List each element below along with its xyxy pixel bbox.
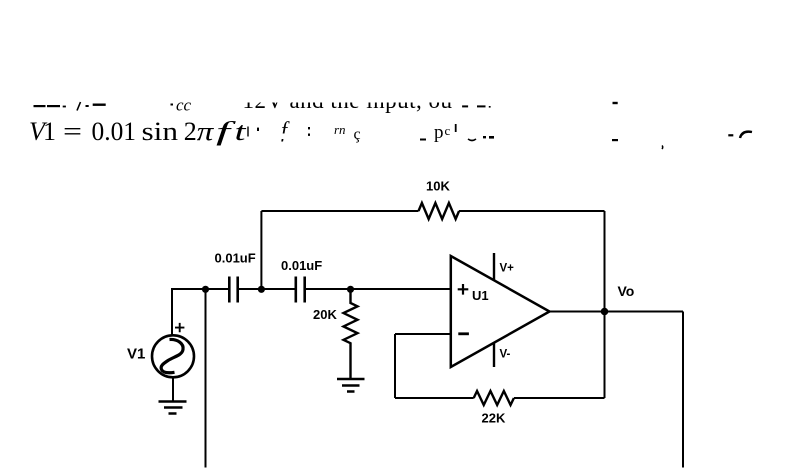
node: equation text V1 = 0.01 sin 2pi f t (29, 117, 247, 146)
node: Vcc subscript fragment (171, 96, 192, 115)
svg-text:22K: 22K (482, 411, 506, 426)
capacitor C2 0.01uF plates (296, 277, 305, 303)
wire: output to right corner (605, 311, 684, 313)
op-amp U1 triangle (451, 256, 550, 367)
wire: bottom line right of 22K (514, 397, 605, 399)
junction node dot: main rail left (202, 286, 209, 293)
svg-text:V+: V+ (500, 263, 515, 275)
svg-text:10K: 10K (426, 179, 450, 194)
svg-text:ç: ç (354, 126, 361, 143)
junction node dot: 20K top (347, 286, 354, 293)
resistor R 10K zigzag (419, 203, 460, 219)
op-amp V- pin line (493, 343, 495, 368)
wire: top feedback line left of 10K (261, 210, 418, 212)
wire: right feedback rail (604, 211, 606, 398)
node: faint fragments on line 2 (247, 117, 752, 149)
svg-text:p: p (434, 122, 444, 143)
plus sign at V1 top (175, 323, 184, 332)
source V1 circle (152, 335, 194, 377)
wire: cap2 to op-amp + input (306, 288, 451, 290)
svg-text:12V and the input, ou: 12V and the input, ou (243, 88, 453, 113)
wire: top feedback line right of 10K (459, 210, 605, 212)
svg-text:U1: U1 (472, 288, 489, 303)
svg-text:0.01uF: 0.01uF (215, 251, 256, 266)
wire: V1 to ground (172, 377, 174, 401)
wire: main input rail left segment (172, 288, 228, 290)
svg-text:Vo: Vo (618, 283, 635, 299)
node: clipped words "and the input, ou" (243, 88, 453, 113)
ground symbol under 20K (337, 379, 365, 392)
svg-text:V1: V1 (127, 346, 145, 363)
wire: between cap1 and cap2 (239, 288, 295, 290)
junction node dot: between capacitors (258, 286, 265, 293)
node: clipped text line 1 fragments (34, 102, 106, 111)
source V1 sine symbol (161, 339, 183, 372)
wire: bottom line left of 22K (395, 397, 474, 399)
wire: drop to V1 source (171, 288, 173, 335)
minus sign at op-amp input (458, 332, 469, 335)
op-amp V+ pin line (493, 253, 495, 281)
wire: to op-amp - input (395, 333, 451, 335)
resistor R 22K zigzag (474, 391, 514, 405)
plus sign at op-amp input (458, 284, 469, 295)
svg-text:V-: V- (500, 349, 511, 361)
svg-text:rn: rn (334, 122, 346, 137)
resistor R 20K zigzag (vertical) (344, 289, 358, 379)
wire: right vertical to page bottom (682, 312, 684, 468)
wire: left vertical of bottom loop (394, 334, 396, 398)
svg-text:20K: 20K (313, 307, 337, 322)
wire: left bottom vertical from junction to page bottom (205, 289, 207, 468)
capacitor C1 0.01uF plates (229, 277, 237, 303)
wire: vertical up from cap midpoint to 10K line (260, 211, 262, 290)
svg-text:c: c (445, 123, 451, 138)
svg-text:cc: cc (176, 96, 192, 115)
svg-text:f: f (281, 117, 290, 142)
wire: op-amp output (549, 311, 605, 313)
junction node dot: output Vo (601, 308, 609, 316)
svg-text:0.01uF: 0.01uF (281, 258, 322, 273)
node: small fragments right of line 1 (462, 102, 618, 108)
ground symbol under V1 (159, 402, 187, 414)
svg-text:V1=0.01sin2πft: V1=0.01sin2πft (29, 117, 247, 146)
